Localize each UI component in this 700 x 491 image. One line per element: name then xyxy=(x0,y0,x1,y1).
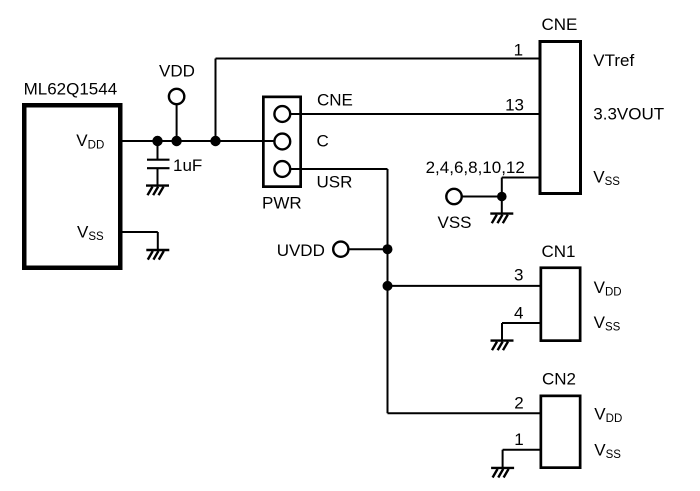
svg-text:4: 4 xyxy=(514,303,523,322)
junction dot at VTref branch xyxy=(210,136,220,146)
terminal UVDD circle xyxy=(333,242,348,257)
label PWR xyxy=(262,194,302,213)
pin number 3 of CN1 xyxy=(514,266,523,285)
svg-text:VDD: VDD xyxy=(159,62,195,81)
PWR pin USR circle xyxy=(274,161,290,177)
label CNE at PWR pin xyxy=(317,90,353,109)
connector CN2 box xyxy=(541,396,580,468)
label 3.3VOUT xyxy=(593,105,664,124)
wire CNE VSS pins horizontal xyxy=(502,177,540,179)
svg-text:VSS: VSS xyxy=(593,168,620,189)
svg-text:PWR: PWR xyxy=(262,194,302,213)
power terminal VDD circle xyxy=(169,89,184,104)
svg-text:2,4,6,8,10,12: 2,4,6,8,10,12 xyxy=(426,158,525,177)
label VSS xyxy=(438,213,472,232)
svg-text:1uF: 1uF xyxy=(173,156,202,175)
svg-text:CN2: CN2 xyxy=(542,370,576,389)
ground at U1 VSS xyxy=(146,250,169,260)
label CNE xyxy=(542,15,578,34)
svg-text:VSS: VSS xyxy=(438,213,472,232)
junction dot at capacitor xyxy=(152,136,162,146)
ground below capacitor xyxy=(146,186,169,196)
wire UVDD terminal to net xyxy=(348,248,387,250)
pin number 13 of CNE xyxy=(505,96,524,115)
connector PWR box xyxy=(263,97,300,187)
svg-text:2: 2 xyxy=(514,394,523,413)
svg-text:3: 3 xyxy=(514,266,523,285)
svg-text:VTref: VTref xyxy=(593,51,634,70)
terminal VSS circle xyxy=(446,189,461,204)
pin label VDD of U1 xyxy=(76,131,104,152)
wire PWR USR pin horizontal xyxy=(290,168,387,170)
wire CNE VSS vertical to ground xyxy=(501,178,503,214)
wire PWR CNE pin to CNE pin 13 xyxy=(290,113,540,115)
label 1uF xyxy=(173,156,202,175)
svg-text:CNE: CNE xyxy=(317,90,353,109)
svg-text:VDD: VDD xyxy=(76,131,104,152)
svg-text:VSS: VSS xyxy=(594,441,621,462)
junction dot VSS terminal xyxy=(497,192,507,202)
junction dot at VDD terminal xyxy=(171,136,181,146)
label VDD xyxy=(159,62,195,81)
pin numbers 2,4,6,8,10,12 of CNE xyxy=(426,158,525,177)
wire VDD net main horizontal xyxy=(122,140,275,142)
label VSS of CN2 xyxy=(594,441,621,462)
wire to CN2 pin 2 xyxy=(388,412,542,414)
connector CN1 box xyxy=(541,268,580,341)
ground at CN1 xyxy=(491,341,514,351)
wire U1 VSS pin to ground xyxy=(123,232,158,250)
junction dot CN1 branch xyxy=(383,281,393,291)
label C at PWR pin xyxy=(317,132,329,151)
wire VDD terminal to net xyxy=(176,104,178,141)
junction dot UVDD xyxy=(383,244,393,254)
pin number 1 of CNE xyxy=(514,41,523,60)
label VDD of CN1 xyxy=(594,278,622,299)
svg-text:CN1: CN1 xyxy=(542,242,576,261)
pin number 4 of CN1 xyxy=(514,303,523,322)
svg-text:VSS: VSS xyxy=(594,313,621,334)
svg-text:1: 1 xyxy=(514,41,523,60)
svg-text:1: 1 xyxy=(514,430,523,449)
label VDD of CN2 xyxy=(594,405,622,426)
label VSS of CNE xyxy=(593,168,620,189)
ground at CNE VSS xyxy=(490,214,513,224)
PWR pin CNE circle xyxy=(274,106,290,122)
label VSS of CN1 xyxy=(594,313,621,334)
label USR at PWR pin xyxy=(317,173,353,192)
wire USR net vertical xyxy=(387,169,389,413)
svg-text:ML62Q1544: ML62Q1544 xyxy=(24,80,118,99)
svg-text:3.3VOUT: 3.3VOUT xyxy=(593,105,664,124)
wire VTref net horizontal to CNE pin 1 xyxy=(216,58,541,60)
ground at CN2 xyxy=(491,468,514,478)
label CN2 xyxy=(542,370,576,389)
svg-text:VDD: VDD xyxy=(594,278,622,299)
label ML62Q1544 xyxy=(24,80,118,99)
PWR pin C circle xyxy=(274,134,290,150)
svg-text:UVDD: UVDD xyxy=(277,241,325,260)
IC U1 ML62Q1544 box xyxy=(24,105,120,268)
wire VSS terminal to junction xyxy=(462,196,502,198)
capacitor C1 1uF xyxy=(147,141,170,186)
pin label VSS of U1 xyxy=(77,223,104,244)
wire to CN1 pin 3 xyxy=(388,285,542,287)
label UVDD xyxy=(277,241,325,260)
svg-text:VSS: VSS xyxy=(77,223,104,244)
svg-text:13: 13 xyxy=(505,96,524,115)
svg-text:C: C xyxy=(317,132,329,151)
svg-text:USR: USR xyxy=(317,173,353,192)
wire CN2 pin 1 to ground xyxy=(503,450,541,468)
svg-text:CNE: CNE xyxy=(542,15,578,34)
svg-text:VDD: VDD xyxy=(594,405,622,426)
pin number 1 of CN2 xyxy=(514,430,523,449)
wire VTref net vertical xyxy=(215,59,217,142)
wire CN1 pin 4 to ground xyxy=(502,323,541,341)
connector CNE box xyxy=(540,42,581,194)
label CN1 xyxy=(542,242,576,261)
pin number 2 of CN2 xyxy=(514,394,523,413)
label VTref xyxy=(593,51,634,70)
